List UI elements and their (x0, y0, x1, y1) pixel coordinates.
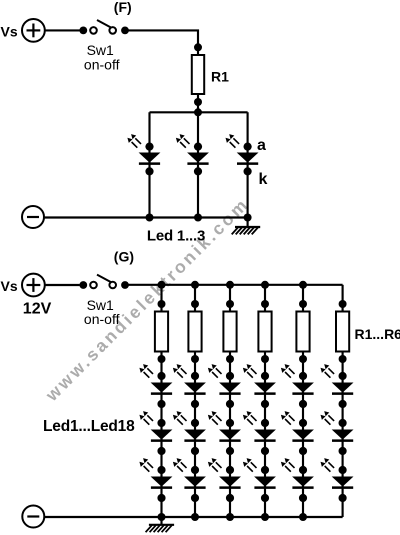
wire Vs to Sw1 (F) (45, 29, 80, 31)
switch Sw1 (F) (79, 20, 128, 34)
node top rail branch 2 (G) (191, 281, 199, 289)
LED Led2 (F) (176, 134, 209, 175)
wire rail to R6 (342, 285, 344, 312)
node below R3 (226, 355, 234, 363)
wire rail to R1 (160, 285, 162, 312)
svg-text:Vs: Vs (1, 24, 18, 40)
node top rail branch 5 (G) (299, 281, 307, 289)
svg-text:on-off: on-off (84, 56, 120, 72)
LED Led3 (G row 1) (208, 364, 241, 408)
node rail center (F) (194, 108, 202, 116)
LED Led3 (F) (226, 134, 259, 175)
wire rail to R5 (302, 285, 304, 312)
svg-text:R1: R1 (211, 68, 229, 84)
LED Led1 (G row 1) (139, 364, 172, 408)
svg-text:R1...R6: R1...R6 (355, 326, 400, 342)
wire branch 5 through LEDs (G) (302, 352, 304, 518)
LED Led15 (G row 3) (208, 458, 241, 502)
node bottom rail branch 5 (G) (299, 513, 307, 521)
LED Led2 (G row 1) (173, 364, 206, 408)
resistor R3 (223, 312, 236, 352)
svg-text:Led1...Led18: Led1...Led18 (43, 418, 135, 435)
LED Led14 (G row 3) (173, 458, 206, 502)
LED Led1 (F) (127, 134, 160, 175)
voltage source Vs 12V (G), + terminal (22, 274, 45, 297)
wire to ground (G) (160, 517, 162, 525)
LED Led11 (G row 2) (281, 411, 314, 455)
node bottom rail Led3 (F) (244, 214, 252, 222)
node above R4 (261, 300, 269, 308)
resistor R1 (192, 55, 204, 94)
wire to ground (F) (247, 218, 249, 228)
node below R1 (194, 98, 202, 106)
node above R5 (299, 300, 307, 308)
bottom rail (F) (44, 216, 248, 218)
wire rail to R4 (264, 285, 266, 312)
svg-text:(F): (F) (114, 0, 132, 15)
node bottom rail branch 4 (G) (261, 513, 269, 521)
LED Led12 (G row 2) (321, 411, 354, 455)
LED Led7 (G row 2) (139, 411, 172, 455)
svg-text:k: k (259, 171, 268, 188)
top rail of LED bank (F) (150, 111, 248, 113)
wire Sw1 to R1 (125, 30, 198, 55)
node below R1 (158, 355, 166, 363)
node bottom rail Led2 (F) (194, 214, 202, 222)
LED Led8 (G row 2) (173, 411, 206, 455)
wire rail to R3 (229, 285, 231, 312)
voltage source Vs (F), + terminal (22, 19, 45, 42)
wire branch 2 through LEDs (G) (194, 352, 196, 518)
wire branch Led2 (F) (197, 112, 199, 217)
resistor R4 (258, 312, 271, 352)
svg-text:on-off: on-off (84, 311, 120, 327)
svg-text:(G): (G) (114, 249, 134, 265)
LED Led6 (G row 1) (321, 364, 354, 408)
LED Led9 (G row 2) (208, 411, 241, 455)
svg-text:Led 1...3: Led 1...3 (147, 228, 205, 245)
LED Led4 (G row 1) (243, 364, 276, 408)
node top rail branch 1 (G) (158, 281, 166, 289)
ground (G) (146, 525, 175, 532)
wire branch Led1 (F) (148, 112, 150, 217)
node below R6 (339, 355, 347, 363)
wire branch Led3 (F) (247, 112, 249, 217)
node below R2 (191, 355, 199, 363)
voltage source return (G), − terminal (22, 506, 44, 528)
resistor R2 (188, 312, 201, 352)
voltage source return (F), − terminal (22, 206, 44, 228)
node above R1 (194, 43, 202, 51)
wire branch 6 through LEDs (G) (342, 352, 344, 518)
bottom rail (G) (44, 516, 342, 518)
LED Led17 (G row 3) (281, 458, 314, 502)
wire branch 3 through LEDs (G) (229, 352, 231, 518)
wire rail to R2 (194, 285, 196, 312)
node above R3 (226, 300, 234, 308)
node bottom rail branch 1 (G) (158, 513, 166, 521)
svg-text:12V: 12V (23, 301, 52, 318)
ground (F) (232, 227, 261, 234)
node above R2 (191, 300, 199, 308)
LED Led18 (G row 3) (321, 458, 354, 502)
node above R6 (339, 300, 347, 308)
node bottom rail branch 3 (G) (226, 513, 234, 521)
resistor R1 (155, 312, 168, 352)
node top rail branch 3 (G) (226, 281, 234, 289)
wire branch 4 through LEDs (G) (264, 352, 266, 518)
LED Led13 (G row 3) (139, 458, 172, 502)
wire R1 to LED rail (197, 94, 199, 112)
resistor R5 (296, 312, 309, 352)
top rail (G) (125, 284, 343, 286)
wire Vs to Sw1 (G) (45, 284, 80, 286)
node below R5 (299, 355, 307, 363)
LED Led16 (G row 3) (243, 458, 276, 502)
switch Sw1 (G) (79, 275, 128, 289)
wire branch 1 through LEDs (G) (160, 352, 162, 518)
node bottom rail Led1 (F) (146, 214, 154, 222)
node top rail branch 4 (G) (261, 281, 269, 289)
svg-text:Vs: Vs (1, 278, 18, 294)
LED Led5 (G row 1) (281, 364, 314, 408)
node bottom rail branch 2 (G) (191, 513, 199, 521)
LED Led10 (G row 2) (243, 411, 276, 455)
svg-text:a: a (257, 137, 266, 154)
node below R4 (261, 355, 269, 363)
resistor R6 (336, 312, 349, 352)
node above R1 (158, 300, 166, 308)
